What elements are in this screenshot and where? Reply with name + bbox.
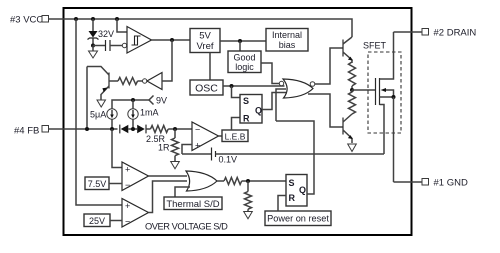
svg-text:R: R [289, 193, 296, 203]
node FB 5uA [110, 127, 114, 131]
box 7.5V [85, 177, 122, 190]
box Internal bias [266, 29, 308, 52]
ground arrow below zener [89, 46, 98, 59]
diode D2 [137, 125, 150, 134]
wire latch1 Q to gate1 [262, 93, 286, 110]
resistor gate2 output [217, 178, 286, 185]
pull-down NPN Q2 [343, 114, 353, 143]
gate2 OR (shutdown) [186, 171, 217, 191]
zener diode 32V [88, 19, 99, 46]
node thermal latch S [246, 179, 250, 183]
svg-text:SFET: SFET [363, 41, 387, 51]
node FB 1mA [131, 127, 135, 131]
source arrow below Q2 [348, 144, 357, 152]
wire gnd [394, 181, 423, 183]
svg-text:OSC: OSC [195, 83, 218, 95]
node zener tap [91, 17, 95, 21]
resistor R2 (gate pull-down) [349, 90, 356, 115]
diode D1 [120, 125, 137, 134]
node gate drive [350, 88, 354, 92]
box L.E.B [219, 130, 249, 142]
startup PNP transistor [87, 67, 109, 130]
box OSC [190, 80, 223, 95]
capacitor [93, 40, 123, 51]
battery 0.1V [182, 148, 384, 161]
svg-text:#4 FB: #4 FB [14, 126, 39, 137]
resistor 1R [172, 129, 179, 162]
svg-text:Power on reset: Power on reset [267, 214, 329, 224]
schmitt trigger buffer [117, 19, 190, 53]
wire LEB to latch R [232, 118, 241, 131]
resistor 2.5R [151, 126, 169, 133]
svg-text:−: − [125, 217, 130, 227]
svg-text:5μA: 5μA [90, 110, 106, 120]
node FB startup collector [85, 127, 89, 131]
resistor pull-down (latch2 S) [245, 181, 252, 212]
svg-text:−: − [195, 125, 200, 135]
9V supply line [112, 96, 154, 110]
pin #4 FB square [42, 126, 49, 133]
wire good logic to gate1 [261, 63, 279, 84]
box Power on reset [265, 211, 331, 226]
wire to latch S [232, 86, 241, 98]
IC outline box [64, 8, 412, 235]
svg-text:S: S [243, 96, 249, 106]
wire FB comp1 sense [112, 129, 122, 168]
node schmitt input tap [115, 17, 119, 21]
node osc/latch S [230, 84, 234, 88]
inverter driving PNP base [143, 40, 173, 90]
svg-text:#2 DRAIN: #2 DRAIN [434, 28, 477, 39]
svg-text:Good: Good [233, 53, 255, 63]
box 5V Vref [190, 29, 220, 53]
node bias/goodlogic [238, 39, 242, 43]
box 25V [84, 214, 122, 227]
box Good logic [228, 51, 261, 73]
svg-text:R: R [243, 114, 250, 124]
svg-text:Thermal S/D: Thermal S/D [166, 199, 219, 210]
svg-text:Vref: Vref [196, 41, 213, 52]
wire VCC pin to rail [49, 18, 65, 20]
resistor (PNP base) [109, 78, 143, 85]
box Thermal S/D [164, 187, 222, 210]
svg-text:logic: logic [235, 62, 254, 72]
svg-text:bias: bias [279, 40, 296, 50]
svg-text:9V: 9V [156, 96, 167, 106]
source arrow below pull-down [244, 212, 253, 219]
latch 2 (S R Q) [286, 175, 307, 207]
SFET dashed box [368, 52, 401, 133]
SFET power MOSFET [376, 32, 396, 182]
current limit comparator [182, 122, 219, 154]
svg-text:OVER VOLTAGE S/D: OVER VOLTAGE S/D [145, 222, 228, 232]
current source 1mA [128, 98, 138, 129]
latch 1 (S R Q) [240, 95, 262, 124]
wire overvoltage sense vertical [76, 19, 122, 205]
wire latch2 Q output riser [276, 121, 314, 194]
svg-text:1mA: 1mA [140, 108, 159, 118]
pin #3 VCC square [42, 16, 49, 23]
driver NPN Q1 [343, 37, 353, 63]
wire latch2 feedback to gate1 [276, 89, 286, 121]
svg-text:+: + [125, 201, 130, 211]
node schmitt output [170, 38, 174, 42]
svg-text:32V: 32V [98, 29, 114, 39]
node 1R tap [173, 127, 177, 131]
wire FB line [49, 128, 118, 130]
svg-text:0.1V: 0.1V [219, 155, 238, 165]
svg-text:#1 GND: #1 GND [434, 178, 468, 189]
svg-text:S: S [289, 178, 295, 188]
wire POR to latch2 R [278, 196, 286, 212]
svg-text:Q: Q [255, 106, 262, 116]
svg-text:25V: 25V [89, 216, 105, 226]
svg-text:+: + [125, 165, 130, 175]
svg-text:#3 VCC: #3 VCC [10, 15, 43, 26]
node VCC-overvoltage tap [74, 17, 78, 21]
wire to SFET gate [352, 89, 375, 91]
ground arrow below PNP emitter [97, 100, 106, 107]
svg-text:Q: Q [299, 185, 306, 195]
node zener-cap junction [91, 44, 95, 48]
wire vref to osc [209, 53, 211, 81]
wire goodlogic drop [239, 41, 241, 51]
pin #1 GND square [422, 179, 429, 186]
wire to comparator minus [168, 128, 192, 130]
comparator 7.5V (overvoltage 1) [122, 162, 187, 191]
svg-text:−: − [125, 180, 130, 190]
comparator 25V (overvoltage 2) [122, 181, 187, 227]
wire VCC top rail [64, 19, 352, 37]
svg-text:Internal: Internal [272, 30, 302, 40]
pin #2 DRAIN square [422, 29, 429, 36]
svg-text:5V: 5V [199, 31, 211, 42]
current source 5uA [107, 109, 117, 129]
wire drain [394, 31, 423, 33]
svg-text:1R: 1R [158, 143, 170, 153]
svg-text:L.E.B: L.E.B [225, 132, 246, 142]
svg-text:+: + [195, 141, 200, 151]
gate1 NOR driver gate [279, 48, 343, 127]
wire osc output [223, 85, 285, 87]
ground arrow below 1R [171, 162, 180, 169]
resistor R1 (gate pull-up) [349, 62, 356, 90]
svg-text:7.5V: 7.5V [88, 179, 107, 189]
wire vref to internal bias [220, 40, 266, 42]
